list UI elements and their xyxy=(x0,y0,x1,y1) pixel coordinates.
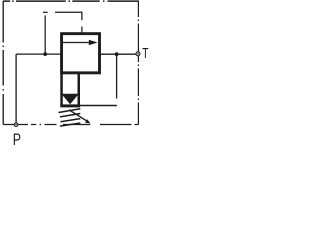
wire: spring chamber drain horizontal xyxy=(80,105,117,107)
svg-text:P: P xyxy=(13,132,21,150)
valve box U1 (bold square) xyxy=(62,34,100,73)
node junction on input line (pilot tap) xyxy=(43,52,47,56)
pilot line vertical from node up xyxy=(44,15,46,54)
spring coil stroke 1 xyxy=(59,109,81,113)
arrow shaft inside valve box xyxy=(63,42,90,44)
seat pocket bottom xyxy=(60,104,80,107)
envelope bottom border (dash-dot) xyxy=(31,124,138,126)
seat pocket right wall xyxy=(78,73,81,106)
wire: P port line (solid, bottom-left corner to port circle) xyxy=(3,124,28,126)
node junction on output line (drain tap) xyxy=(115,52,119,56)
adjustment arrow shaft across spring xyxy=(69,110,88,122)
arrowhead of adjustment arrow xyxy=(85,119,91,123)
port T circle xyxy=(136,52,140,56)
poppet triangle (filled) xyxy=(61,94,79,105)
spring coil stroke 3 xyxy=(61,119,81,122)
wire: T drain vertical xyxy=(116,54,118,98)
wire: output line from valve box right to T port xyxy=(101,53,136,55)
svg-text:T: T xyxy=(142,46,149,62)
spring coil stroke 4 xyxy=(60,123,80,126)
port T center dot xyxy=(137,53,139,55)
wire: input line to valve box left xyxy=(16,53,60,55)
pilot line long dash (horizontal) xyxy=(55,12,82,20)
port P center dot xyxy=(15,124,16,125)
envelope left border (dash-dot) xyxy=(2,1,4,125)
pilot line dash to valve box top xyxy=(81,27,83,33)
arrowhead of flow arrow in valve box xyxy=(89,40,98,46)
wire: P riser (vertical from port up to input line) xyxy=(15,54,17,123)
port P circle xyxy=(14,123,18,127)
envelope top border (dash-dot) xyxy=(3,0,139,2)
seat pocket left wall xyxy=(60,73,63,106)
spring coil stroke 2 xyxy=(60,114,80,117)
envelope right border (dash-dot) xyxy=(137,1,139,125)
pilot line corner dash top-left xyxy=(43,11,48,13)
